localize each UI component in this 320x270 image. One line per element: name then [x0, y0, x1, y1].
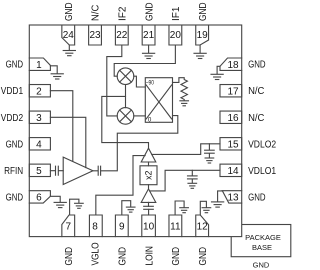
- svg-text:7: 7: [65, 222, 71, 233]
- svg-text:x2: x2: [143, 171, 153, 180]
- svg-text:GND: GND: [248, 60, 266, 71]
- svg-text:VGLO: VGLO: [91, 242, 102, 265]
- svg-text:VDD1: VDD1: [1, 86, 24, 97]
- svg-text:18: 18: [227, 60, 239, 71]
- svg-text:9: 9: [119, 222, 125, 233]
- svg-text:GND: GND: [64, 3, 75, 22]
- svg-text:GND: GND: [6, 60, 24, 71]
- svg-text:11: 11: [170, 222, 181, 233]
- svg-text:1: 1: [36, 60, 42, 71]
- svg-text:12: 12: [197, 222, 209, 233]
- svg-text:N/C: N/C: [91, 5, 102, 21]
- svg-text:5: 5: [36, 166, 42, 177]
- svg-text:LOIN: LOIN: [144, 246, 155, 265]
- svg-text:GND: GND: [118, 247, 129, 266]
- svg-text:13: 13: [227, 193, 239, 204]
- svg-text:24: 24: [63, 30, 75, 41]
- svg-text:GND: GND: [171, 247, 182, 266]
- svg-text:0: 0: [148, 116, 152, 123]
- svg-text:8: 8: [92, 222, 98, 233]
- svg-text:23: 23: [89, 30, 101, 41]
- svg-text:19: 19: [197, 30, 209, 41]
- svg-text:PACKAGE: PACKAGE: [245, 233, 281, 242]
- svg-text:3: 3: [36, 113, 42, 124]
- svg-text:15: 15: [227, 139, 239, 150]
- svg-text:GND: GND: [6, 192, 24, 203]
- svg-text:N/C: N/C: [248, 86, 264, 97]
- svg-text:GND: GND: [248, 192, 266, 203]
- svg-text:20: 20: [170, 30, 182, 41]
- svg-text:VDLO1: VDLO1: [248, 166, 276, 177]
- svg-text:2: 2: [36, 86, 42, 97]
- svg-text:VDLO2: VDLO2: [248, 139, 276, 150]
- svg-text:IF2: IF2: [118, 6, 129, 21]
- svg-text:10: 10: [143, 222, 155, 233]
- svg-text:RFIN: RFIN: [4, 166, 23, 177]
- svg-text:N/C: N/C: [248, 113, 264, 124]
- svg-text:GND: GND: [6, 139, 24, 150]
- svg-text:BASE: BASE: [252, 243, 272, 252]
- svg-text:IF1: IF1: [171, 6, 182, 21]
- svg-text:17: 17: [227, 86, 239, 97]
- svg-text:22: 22: [116, 30, 128, 41]
- svg-text:14: 14: [227, 166, 239, 177]
- svg-text:6: 6: [36, 193, 42, 204]
- svg-text:VDD2: VDD2: [1, 113, 24, 124]
- svg-text:16: 16: [227, 113, 239, 124]
- svg-text:GND: GND: [198, 3, 209, 22]
- svg-text:GND: GND: [64, 247, 75, 266]
- svg-text:−90: −90: [146, 79, 155, 86]
- svg-text:GND: GND: [198, 247, 209, 266]
- svg-text:GND: GND: [253, 261, 270, 270]
- svg-text:GND: GND: [144, 3, 155, 22]
- svg-text:21: 21: [143, 30, 155, 41]
- svg-text:4: 4: [36, 139, 42, 150]
